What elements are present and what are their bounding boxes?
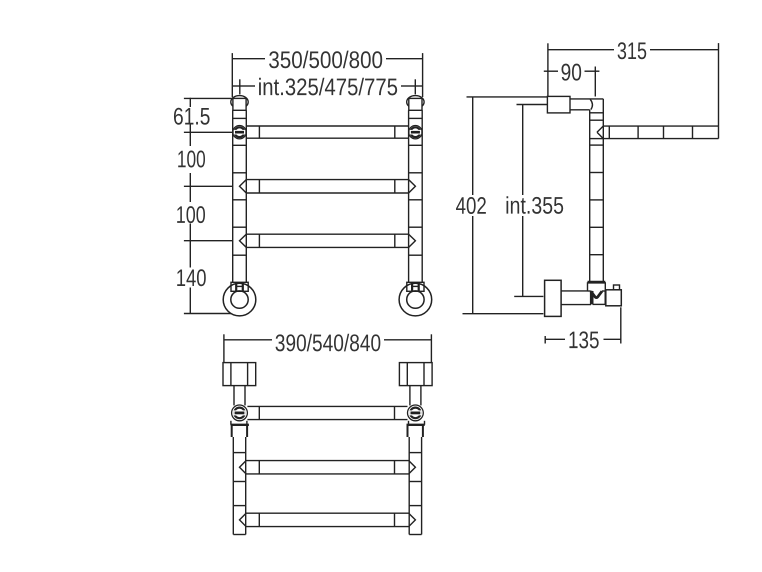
dimension 315 left extension	[547, 43, 549, 96]
dimension 315 label	[276, 334, 381, 352]
bottom left post joints	[233, 452, 245, 454]
front right cap	[407, 96, 424, 109]
dimension int.325/475/775 terminator left	[239, 79, 241, 94]
dimension int.355 label	[456, 197, 486, 214]
dimension 100 label lower	[177, 206, 205, 223]
dimension 350/500/800 extension line right	[422, 53, 424, 97]
dimension 90 terminator left stub	[544, 70, 548, 72]
extension line rail3 centre	[184, 240, 233, 242]
dimension 402 line	[472, 97, 474, 195]
front left ring fitting	[231, 282, 248, 291]
front rail 3	[240, 234, 416, 247]
extension line floor	[184, 313, 231, 315]
bottom right stem	[409, 386, 411, 406]
dimension 90 label	[618, 42, 647, 59]
dimension 135 label	[507, 196, 564, 214]
side post	[589, 110, 591, 282]
left dimension chain vertical line	[189, 98, 191, 107]
bottom left screw	[232, 405, 248, 421]
dimension int.325/475/775 line	[240, 85, 255, 87]
front right screw	[409, 126, 422, 139]
extension line rail1 centre	[184, 131, 233, 133]
bottom left post	[232, 437, 234, 535]
side valve body	[606, 290, 622, 306]
front left ring	[223, 283, 256, 316]
side rail	[603, 125, 718, 127]
bottom right post	[408, 437, 410, 535]
dimension 140 label	[177, 269, 206, 286]
side rail chevron	[597, 126, 603, 139]
bottom right plate	[407, 421, 425, 437]
bottom right post joints	[409, 452, 421, 454]
dimension 135 extension left	[544, 336, 546, 344]
dimension 390/540/840 line	[224, 339, 272, 341]
dimension int.355 line	[522, 105, 524, 196]
bottom rail 2	[240, 461, 416, 474]
dimension 90 terminator right	[594, 67, 596, 97]
bottom left stem	[233, 386, 235, 406]
side valve funnel	[591, 291, 605, 304]
side elbow seam	[590, 99, 592, 109]
bottom right bracket	[399, 363, 432, 386]
front left post	[232, 110, 234, 282]
bottom left plate	[231, 421, 249, 437]
dimension 135 extension right	[620, 307, 622, 343]
dimension 402 extension top	[467, 96, 548, 98]
front left cap	[231, 96, 248, 109]
dimension 135 line	[545, 338, 565, 340]
side bottom pipe	[561, 290, 587, 292]
side rail joints	[608, 126, 610, 139]
dimension 390/540/840 label	[569, 331, 598, 348]
front right post joints	[409, 117, 423, 119]
dimension 61.5 label	[174, 108, 210, 125]
dimension 315 line	[548, 49, 614, 51]
bottom left bracket	[223, 363, 256, 386]
side post joints	[590, 112, 604, 114]
dimension 390/540/840 extension left	[223, 334, 225, 362]
front rail 2	[240, 180, 416, 193]
side top pipe	[570, 98, 603, 100]
dimension 350/500/800 label	[269, 51, 382, 69]
dimension 100 label upper	[178, 151, 205, 168]
bottom right screw	[408, 405, 424, 421]
front right post	[408, 110, 410, 282]
dimension 90 line	[548, 70, 558, 72]
front rail 1	[246, 125, 408, 127]
dimension int.325/475/775 terminator right	[414, 79, 416, 94]
dimension 402 extension bottom	[463, 313, 544, 315]
front right ring fitting	[407, 282, 424, 291]
side bottom wall bracket	[545, 280, 562, 316]
extension line cap top	[184, 97, 232, 99]
dimension 315 right extension	[718, 43, 720, 126]
side valve knob	[614, 285, 620, 290]
front right ring	[399, 283, 432, 316]
dimension 350/500/800 line	[232, 58, 265, 60]
bottom rail 1	[247, 405, 407, 407]
front left post joints	[233, 117, 247, 119]
dimension 390/540/840 extension right	[430, 334, 432, 362]
dimension 402 label	[562, 64, 582, 81]
dimension int.355 extension bottom	[514, 295, 543, 297]
side bottom collar	[588, 282, 606, 291]
extension line rail2 centre	[184, 185, 233, 187]
bottom rail 3	[240, 513, 416, 526]
dimension int.325/475/775 label	[259, 78, 397, 96]
dimension 350/500/800 extension line left	[231, 53, 233, 97]
side top wall bracket	[547, 96, 570, 113]
front left screw	[233, 126, 246, 139]
dimension int.355 extension top	[517, 104, 548, 106]
